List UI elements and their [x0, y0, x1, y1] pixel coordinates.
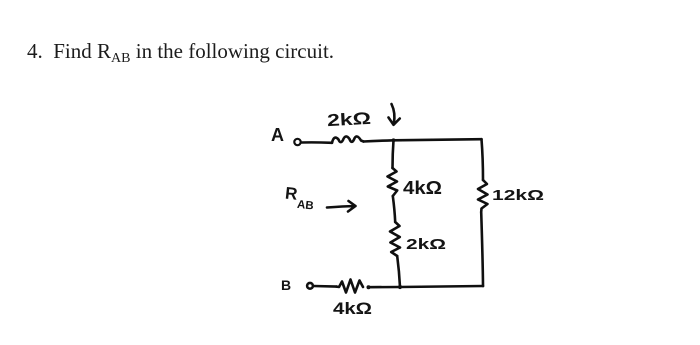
svg-text:4kΩ: 4kΩ [403, 178, 442, 198]
terminal A [294, 139, 300, 145]
right wire 12k to bottom corner [481, 212, 483, 286]
svg-text:2kΩ: 2kΩ [406, 236, 446, 253]
bottom wire junction to resistor 4k [368, 286, 400, 289]
wire resistor to node, top wire to right corner [364, 139, 482, 141]
current arrow (down) [389, 104, 400, 125]
small dot after bottom 4k resistor [367, 286, 370, 289]
label R_AB [283, 184, 315, 213]
svg-text:AB: AB [296, 199, 314, 213]
wire between 4k and 2k [393, 196, 395, 222]
wire 2k to bottom junction [397, 256, 400, 287]
svg-text:A: A [271, 125, 284, 145]
arrow R_AB (right) [327, 201, 356, 212]
svg-text:B: B [281, 277, 291, 293]
wire down to 4k resistor [393, 140, 394, 168]
node junction top [392, 139, 395, 142]
resistor 2k vertical [390, 222, 400, 256]
bottom wire corner to junction [400, 286, 483, 287]
resistor 4k bottom (sharp W zigzag) [337, 280, 364, 293]
wire A to resistor 2k [301, 141, 332, 144]
right branch: top corner down to 12k [482, 139, 484, 180]
resistor 12k vertical [478, 180, 488, 212]
resistor 4k (vertical zigzag) [388, 168, 398, 196]
wire resistor to terminal B [314, 285, 337, 288]
svg-text:12kΩ: 12kΩ [492, 187, 544, 204]
terminal B [307, 283, 313, 289]
svg-text:2kΩ: 2kΩ [327, 109, 372, 130]
svg-text:R: R [284, 184, 298, 204]
svg-text:4kΩ: 4kΩ [333, 299, 372, 318]
node junction bottom [398, 285, 401, 288]
resistor R 2k (horizontal squiggle) [332, 136, 364, 142]
